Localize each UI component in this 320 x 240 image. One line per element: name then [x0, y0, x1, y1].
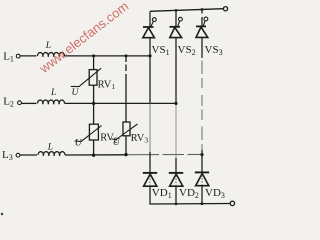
varistor RV2	[75, 124, 102, 141]
svg-text:U: U	[75, 138, 83, 148]
node bottom bus leg2 junction	[175, 203, 178, 206]
inductor L (phase L1)	[38, 53, 65, 56]
varistor RV3	[111, 122, 137, 139]
node RV1/RV2-L2 junction	[92, 102, 95, 105]
node RV3-L1 junction	[125, 54, 128, 57]
wire positive dc bus (top)	[150, 9, 223, 12]
wire L2 line to bridge leg 2	[65, 102, 177, 104]
svg-text:U: U	[113, 138, 121, 148]
node RV2-L3 junction	[92, 154, 95, 157]
wire RV2 top lead	[93, 103, 95, 124]
wire L3 line to bridge leg 3	[65, 154, 126, 156]
node RV1-L1 junction	[92, 54, 95, 57]
svg-text:L: L	[50, 88, 56, 98]
node L1-leg1 junction	[148, 54, 151, 57]
wire L2 terminal to inductor	[22, 102, 37, 104]
node RV3-L3 junction	[124, 153, 127, 156]
wire L1 line to bridge leg 1	[65, 55, 151, 57]
wire bridge leg 3	[201, 10, 203, 205]
wire RV2 bottom lead	[93, 140, 95, 155]
wire varistor column RV1 top lead	[93, 56, 95, 70]
svg-text:L: L	[47, 142, 53, 152]
node L2-leg2 junction	[174, 102, 177, 105]
inductor L (phase L2)	[38, 100, 65, 103]
wire bridge leg 1	[149, 11, 151, 204]
wire RV1 bottom lead	[93, 85, 95, 103]
thyristor VS3	[196, 17, 208, 37]
terminal dc+ output	[223, 7, 227, 11]
thyristor VS1	[143, 18, 156, 38]
svg-text:L: L	[45, 41, 51, 51]
varistor RV1	[71, 68, 101, 86]
thyristor VS2	[170, 17, 183, 37]
wire RV3 bottom lead	[125, 136, 127, 155]
diode VD2	[169, 173, 183, 186]
wire bridge leg 2	[175, 10, 177, 204]
speck bottom-left	[1, 213, 3, 215]
node L3-leg3 junction	[200, 153, 203, 156]
node top bus leg3 junction	[201, 8, 204, 11]
svg-text:U: U	[72, 88, 80, 98]
terminal L1	[16, 54, 20, 58]
diode VD3	[195, 172, 209, 185]
inductor L (phase L3)	[38, 152, 65, 155]
wire L3 terminal to inductor	[20, 154, 37, 156]
terminal L2	[18, 101, 22, 105]
wire negative dc bus (bottom)	[150, 203, 231, 206]
terminal dc- output	[230, 201, 234, 205]
wire L1 terminal to inductor	[20, 55, 36, 57]
diode VD1	[143, 173, 157, 186]
node top bus leg2 junction	[175, 9, 178, 12]
wire RV3 top lead from L1	[125, 56, 127, 122]
terminal L3	[16, 153, 20, 157]
node bottom bus leg3 junction	[201, 202, 204, 205]
